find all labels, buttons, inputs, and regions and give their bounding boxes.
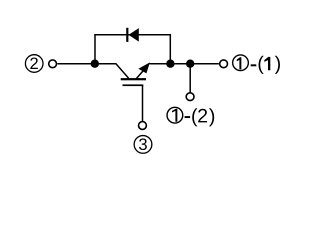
gate bar xyxy=(123,84,144,86)
terminal 3 (gate terminal circle) xyxy=(139,122,147,130)
IGBT Q1 xyxy=(116,62,150,86)
wire diode branch right vertical xyxy=(169,34,171,64)
wire gate lead vertical xyxy=(142,85,144,121)
terminal 1-(2) circle xyxy=(186,93,194,101)
emitter arrowhead xyxy=(138,62,150,73)
terminal 1-(1) circle xyxy=(220,60,228,68)
wire emitter rail xyxy=(149,63,219,65)
wire diode branch left vertical xyxy=(94,34,96,64)
node emitter junction A (diode return) xyxy=(166,60,174,68)
label terminal 1-(2) xyxy=(167,107,214,126)
wire diode branch top horizontal xyxy=(94,34,171,36)
wire collector horizontal xyxy=(57,63,116,65)
label terminal 3 xyxy=(134,136,152,154)
label terminal 1-(1) xyxy=(233,55,280,74)
emitter line xyxy=(136,70,144,79)
collector angled line xyxy=(116,64,129,79)
label terminal 2 xyxy=(25,55,43,73)
node emitter junction B (aux emitter) xyxy=(186,60,194,68)
terminal 2 (collector terminal circle) xyxy=(49,60,57,68)
body bar xyxy=(121,78,146,80)
wire aux emitter branch vertical xyxy=(189,64,191,93)
diode D1 (freewheel diode, cathode left) xyxy=(126,28,139,42)
node collector junction xyxy=(91,60,99,68)
